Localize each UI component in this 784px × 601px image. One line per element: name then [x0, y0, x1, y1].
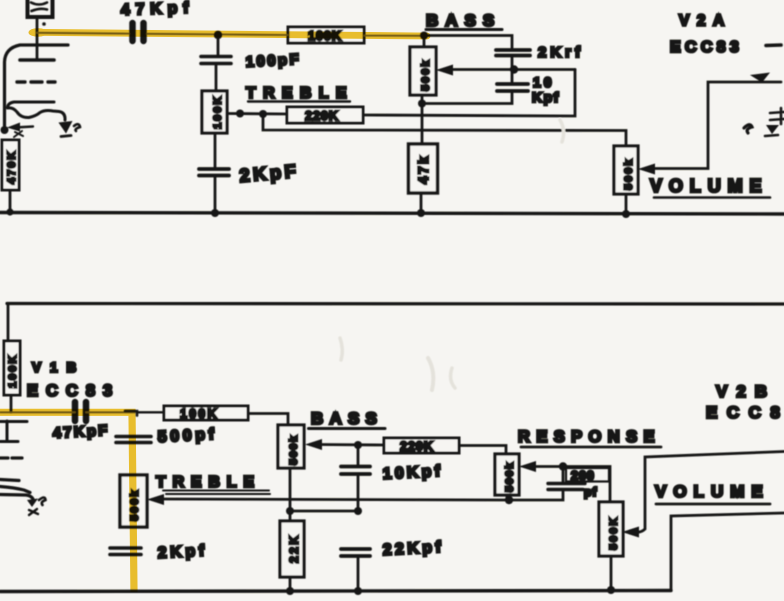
resistor 100K series (bottom) [164, 406, 248, 421]
wire 100K to bass pot top [248, 414, 288, 426]
wire plate lead to node A [36, 18, 39, 60]
junction dot [622, 210, 630, 218]
underline VOLUME [656, 503, 770, 506]
junction dot [6, 208, 13, 215]
svg-text:Kpf: Kpf [532, 89, 560, 105]
svg-text:V2B: V2B [716, 382, 776, 401]
junction dot [286, 587, 294, 595]
wire response pot bottom stub [506, 495, 509, 500]
resistor 220K (bottom) [384, 438, 459, 454]
svg-text:220K: 220K [400, 440, 434, 454]
response wiper arrow and wire to volume top [519, 461, 610, 502]
wire node A to 47Kpf (under yellow) [37, 33, 218, 35]
label 200 pf [566, 468, 609, 499]
junction dot [354, 587, 362, 595]
wire treble tap down and right to volume top [263, 114, 626, 146]
svg-text:100K: 100K [7, 354, 19, 388]
svg-text:470K: 470K [6, 150, 18, 184]
node dot at envelope bottom [1, 126, 9, 134]
bus ground line (bottom section) [0, 591, 671, 592]
svg-text:100K: 100K [180, 407, 219, 421]
junction dot node B [510, 65, 518, 73]
wire 220K to bass network loop [363, 70, 575, 117]
wire node B to 10Kpf [511, 70, 514, 85]
capacitor 2Kpf plates (bottom) [110, 548, 141, 555]
underline BASS [309, 427, 386, 430]
wire under yellow to 100K grid resistor [0, 411, 138, 413]
potentiometer TREBLE (bottom) [120, 475, 147, 527]
svg-text:500k: 500k [420, 59, 432, 91]
wire junction down to 200pf [562, 467, 565, 484]
label 10 Kpf [532, 74, 560, 105]
potentiometer TREBLE 100K (top) [202, 91, 227, 133]
wire 10Kpf down to lower junction [357, 474, 360, 511]
underline RESPONSE [521, 446, 661, 449]
wire junction down to 10Kpf [357, 445, 360, 466]
wire treble pot to 2KpF to bus [214, 133, 217, 213]
svg-text:BASS: BASS [311, 409, 383, 428]
bass wiper arrow and wire to 220K [305, 439, 385, 450]
svg-text:500pf: 500pf [157, 426, 218, 446]
svg-text:TREBLE: TREBLE [156, 474, 261, 491]
svg-text:RESPONSE: RESPONSE [518, 428, 661, 446]
wire 100pF to treble pot [215, 64, 218, 92]
wire 22Kpf to bus [357, 556, 360, 591]
wire bass node to 2Krf [424, 36, 512, 50]
dash after ECC83 [766, 43, 781, 47]
svg-text:2Kpf: 2Kpf [157, 542, 208, 562]
svg-text:200: 200 [571, 469, 595, 483]
svg-text:47KpF: 47KpF [52, 422, 110, 442]
scan smudge artifacts [340, 120, 564, 390]
wire 2Krf to node B [511, 58, 514, 70]
wire 22K to bus [289, 511, 292, 591]
capacitor 10Kpf (top) [497, 84, 528, 91]
wire 200pf to response pot bottom [509, 490, 563, 501]
svg-text:VOLUME: VOLUME [655, 482, 770, 501]
svg-text:220K: 220K [305, 109, 339, 123]
wire volume bottom to bus [625, 194, 628, 214]
wire 470K to bus [9, 190, 12, 212]
triode V1A grid (dashed) [17, 80, 55, 83]
wire V2B cathode return lower right [671, 513, 784, 590]
junction dot [417, 209, 425, 217]
resistor 220K (top) [287, 107, 363, 123]
volume wiper arrow and wire to V2A grid [638, 82, 781, 175]
V2A cathode fragment at right edge [744, 108, 784, 136]
capacitor 200pf plates [548, 484, 585, 490]
wire corner under yellow [125, 411, 137, 416]
junction dot [354, 441, 362, 449]
wire 47Kpf to 100K to bass node (under yellow) [218, 34, 424, 35]
junction dot [259, 110, 267, 118]
junction dot [286, 507, 294, 515]
wire treble wiper to 220K [227, 112, 288, 115]
svg-text:47k: 47k [416, 154, 431, 184]
underline VOLUME [654, 196, 770, 199]
junction dot bass pot bottom [418, 100, 426, 108]
capacitor 2KpF (top left) [199, 169, 229, 176]
svg-text:ECC83: ECC83 [670, 39, 743, 56]
supply rail line (bottom section top) [7, 302, 784, 306]
potentiometer VOLUME 500k (top) [614, 146, 638, 194]
junction dot [354, 507, 362, 515]
capacitor 2Krf [496, 50, 530, 56]
svg-text:500k: 500k [288, 434, 300, 465]
svg-text:500K: 500K [608, 516, 620, 550]
grid arrow mark V2A [750, 73, 770, 83]
resistor 470K [2, 140, 19, 190]
svg-text:100K: 100K [212, 95, 224, 129]
capacitor 47Kpf plates [133, 23, 144, 41]
svg-text:10: 10 [533, 74, 555, 90]
junction dot on yellow wire [214, 31, 222, 39]
potentiometer VOLUME 500K (bottom) [599, 502, 623, 556]
svg-text:ECC83: ECC83 [27, 382, 120, 400]
wire 220K to response pot top [459, 446, 506, 455]
resistor 22K [280, 521, 304, 577]
triode V1A envelope [5, 45, 69, 126]
wire bass node into pot [423, 36, 426, 48]
capacitor 47KpF plates (bottom) [75, 402, 86, 421]
underline BASS [426, 28, 502, 31]
junction dot [559, 462, 567, 470]
svg-text:47Kpf: 47Kpf [121, 0, 195, 19]
svg-text:TREBLE: TREBLE [246, 85, 354, 102]
svg-text:22Kpf: 22Kpf [382, 539, 444, 559]
svg-text:100pF: 100pF [245, 51, 301, 71]
junction dot [236, 110, 244, 118]
wire 10Kpf to bass pot bottom [422, 91, 512, 104]
junction dot [607, 586, 615, 594]
svg-text:VOLUME: VOLUME [650, 176, 768, 196]
junction dot response pot bottom [505, 496, 513, 504]
triode V1B fragment at left edge [0, 421, 46, 515]
svg-text:pf: pf [584, 485, 597, 499]
bus ground line (top section) [0, 213, 784, 215]
wire 100K to yellow node [10, 395, 13, 412]
yellow highlighter wire (top section) [33, 32, 427, 36]
junction dot [211, 209, 219, 217]
triode V1A cathode [8, 102, 66, 120]
svg-text:V1B: V1B [32, 360, 85, 375]
capacitor 22Kpf plates [341, 549, 370, 556]
wire 47K to bus [420, 193, 423, 213]
capacitor 500pf plates [116, 437, 151, 443]
underline TREBLE [248, 100, 350, 102]
resistor 100K anode (bottom left) [4, 341, 20, 395]
svg-text:10Kpf: 10Kpf [382, 463, 443, 483]
svg-text:BASS: BASS [426, 11, 501, 30]
resistor R1 plate load (cut at top edge) [28, 0, 53, 17]
junction dot bass top node [420, 32, 428, 40]
wire to 100pF [217, 35, 220, 56]
arrow at V1A cathode lead with s mark [59, 121, 81, 137]
treble wiper arrow and long wire to response pot bottom [147, 494, 508, 505]
potentiometer BASS 500k (top) [410, 47, 436, 95]
capacitor 10Kpf plates (bottom) [341, 467, 370, 475]
double underline TREBLE [163, 491, 270, 495]
svg-text:2Krf: 2Krf [538, 44, 584, 61]
volume wiper arrow and wire to V2B grid [622, 452, 784, 538]
resistor 100K coupling (horizontal, under yellow) [288, 27, 364, 43]
svg-text:ECC8: ECC8 [706, 403, 784, 422]
svg-text:22K: 22K [287, 533, 301, 563]
speck artifact [42, 22, 46, 26]
wire bass pot bottom to 47K [421, 95, 424, 145]
arrow into V1A grid-return node [7, 123, 33, 138]
triode V1A plate [20, 58, 54, 62]
yellow highlighter wire (bottom section) [0, 412, 134, 592]
resistor 47K [409, 144, 438, 193]
svg-text:V2A: V2A [679, 13, 732, 30]
wire rail down to 100K anode resistor [8, 304, 11, 342]
potentiometer RESPONSE 500k [495, 454, 519, 495]
svg-text:500k: 500k [623, 158, 635, 190]
svg-text:500k: 500k [504, 461, 516, 492]
wire bass pot bottom to junction [290, 468, 358, 511]
capacitor 100pF [201, 57, 231, 64]
potentiometer BASS 500k (bottom) [278, 425, 304, 468]
yellow highlighter start blob [29, 28, 48, 36]
wire volume pot bottom to bus [610, 556, 613, 590]
bass wiper arrow [436, 65, 575, 76]
